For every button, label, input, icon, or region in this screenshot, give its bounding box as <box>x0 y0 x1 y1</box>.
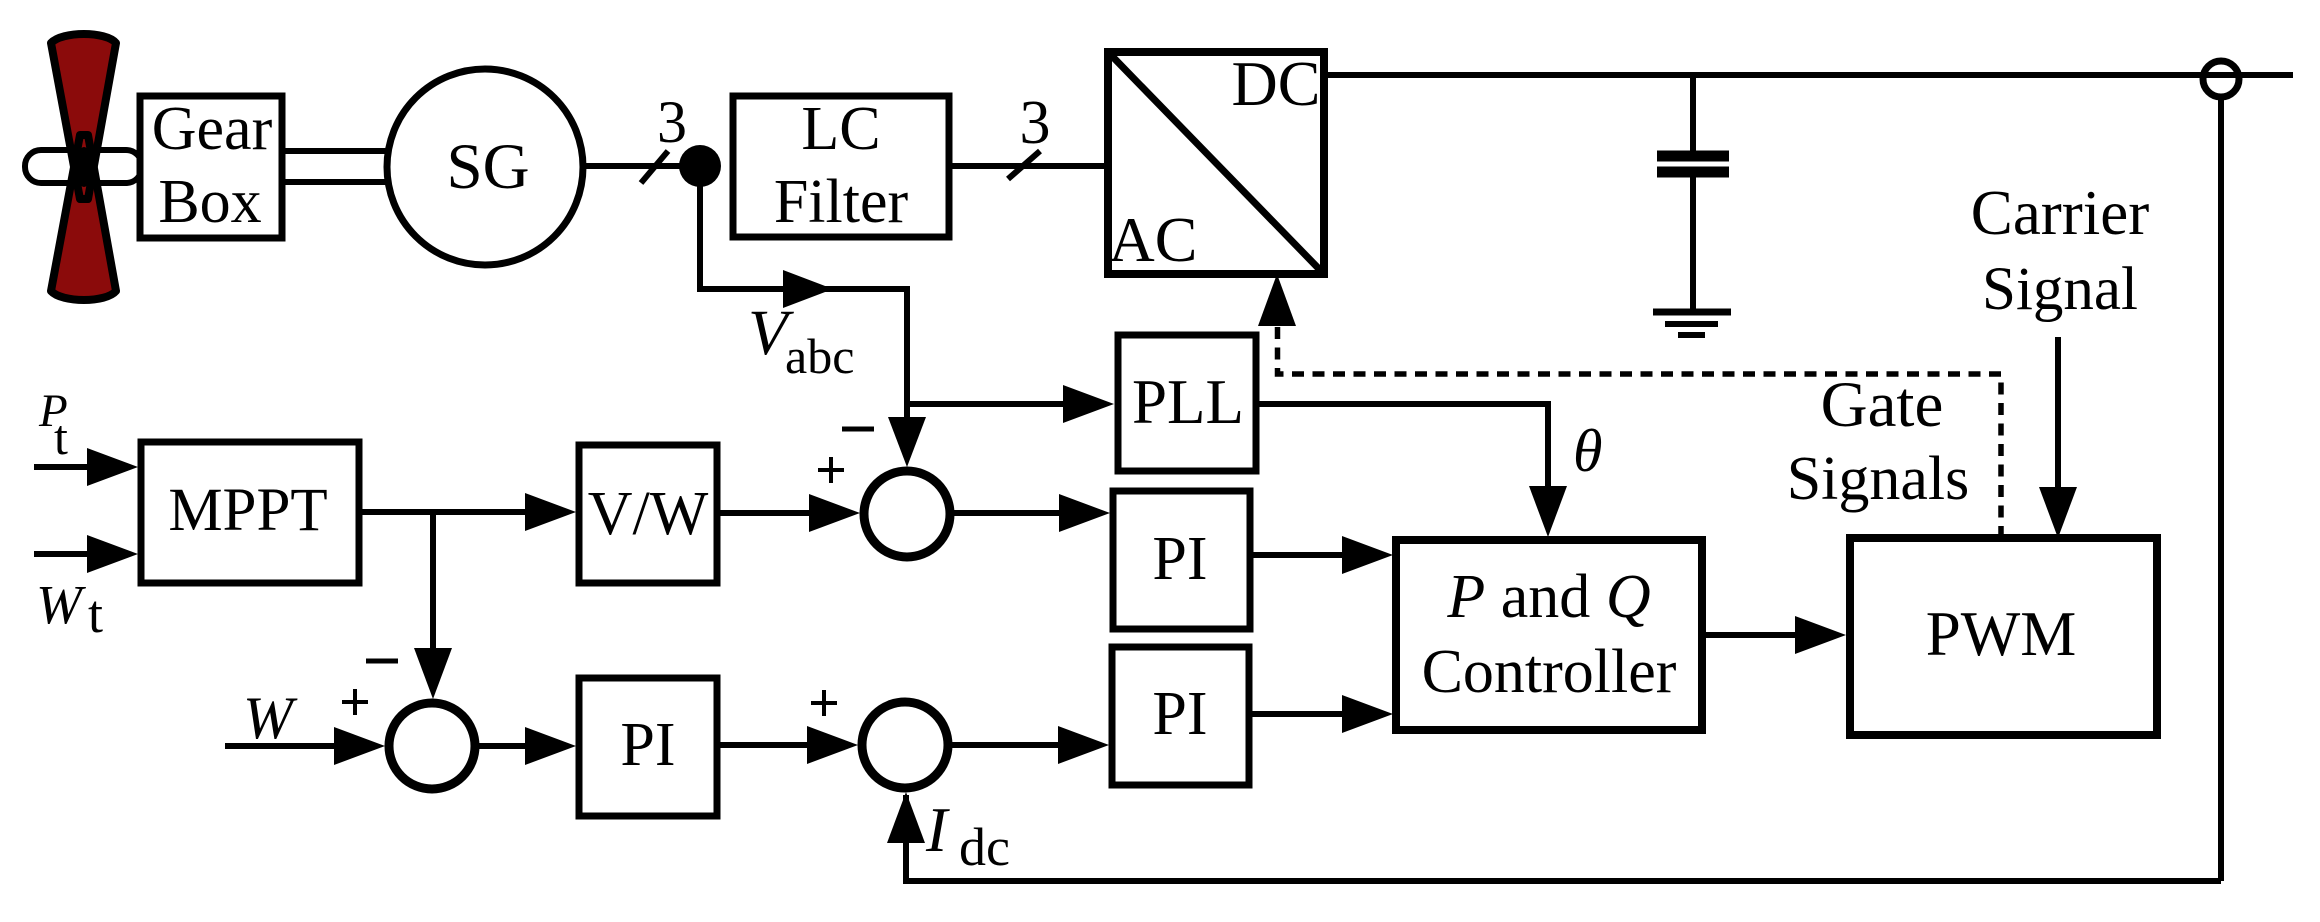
svg-text:LC: LC <box>801 95 880 163</box>
svg-text:V/W: V/W <box>588 480 709 548</box>
svg-text:Box: Box <box>158 168 261 236</box>
svg-text:Filter: Filter <box>774 168 909 236</box>
svg-text:t: t <box>88 584 103 644</box>
svg-text:Carrier: Carrier <box>1971 178 2149 248</box>
svg-text:I: I <box>925 794 950 865</box>
svg-text:AC: AC <box>1109 204 1198 275</box>
svg-text:θ: θ <box>1573 418 1602 484</box>
svg-text:P and Q: P and Q <box>1446 563 1650 631</box>
svg-text:SG: SG <box>446 131 529 203</box>
svg-text:PI: PI <box>620 711 675 779</box>
svg-text:t: t <box>54 409 68 465</box>
svg-text:3: 3 <box>1020 89 1051 157</box>
svg-text:PI: PI <box>1152 525 1207 593</box>
svg-text:DC: DC <box>1232 48 1321 119</box>
svg-text:Signal: Signal <box>1982 256 2138 323</box>
svg-text:PI: PI <box>1152 680 1207 748</box>
svg-text:abc: abc <box>785 328 854 384</box>
svg-text:Signals: Signals <box>1787 445 1970 513</box>
svg-text:Gear: Gear <box>152 95 273 163</box>
svg-text:3: 3 <box>657 89 687 155</box>
svg-text:W: W <box>243 685 298 751</box>
svg-text:PWM: PWM <box>1926 599 2077 669</box>
svg-text:dc: dc <box>959 817 1010 877</box>
svg-text:Gate: Gate <box>1821 369 1944 441</box>
svg-text:Controller: Controller <box>1422 638 1677 706</box>
svg-text:W: W <box>36 574 86 635</box>
svg-text:PLL: PLL <box>1132 367 1244 437</box>
svg-text:MPPT: MPPT <box>168 477 327 544</box>
